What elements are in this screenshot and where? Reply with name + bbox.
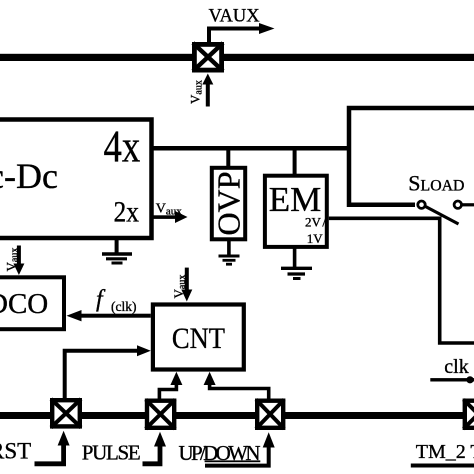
svg-text:(clk): (clk)	[111, 299, 136, 314]
wire: Sload branch (top, left, bottom)	[349, 108, 474, 205]
wire: OVP stem from 4x bus	[226, 150, 230, 167]
ground below OVP	[219, 239, 240, 264]
wire: bottom bus	[0, 412, 474, 419]
wire: TM_2 underline wire	[411, 464, 474, 468]
svg-text:TM_2 T: TM_2 T	[416, 441, 474, 463]
wire: RST branch feedback into CNT left	[65, 351, 138, 398]
wire: 4x output bus to load branch	[152, 146, 352, 151]
block: Dc-Dc converter	[0, 120, 152, 239]
wire: VAUX top bus	[0, 54, 474, 61]
ground below Dc-Dc	[102, 240, 132, 263]
wire: Vaux input arrow into T1 bottom	[206, 82, 210, 107]
block CNT	[153, 305, 244, 370]
svg-text:CNT: CNT	[172, 323, 225, 356]
switch Sload contact 2	[454, 201, 461, 208]
ground below EM	[281, 247, 312, 279]
wire: 2x Vaux output arrow	[154, 215, 177, 219]
wire: PULSE branch into CNT bottom	[159, 384, 176, 400]
svg-text:clk: clk	[444, 356, 468, 378]
wire: PULSE label arrow into B2	[143, 446, 161, 464]
svg-text:1V: 1V	[307, 231, 324, 246]
svg-text:2x: 2x	[114, 196, 140, 229]
block OVP	[212, 168, 245, 240]
wire: Sload right stub	[463, 203, 474, 206]
switch Sload contact 1	[418, 201, 425, 208]
wire: f(clk) from CNT to DCO	[80, 314, 151, 318]
wire: EM output to clk branch corner	[329, 218, 474, 343]
switch box T1 (crossed square on VAUX bus)	[193, 43, 223, 71]
wire: clk line with junction dot	[430, 378, 474, 381]
svg-text:OVP: OVP	[211, 171, 247, 235]
svg-text:VAUX: VAUX	[209, 7, 261, 27]
svg-text:DCO: DCO	[0, 288, 48, 320]
wire: Vaux arrow into CNT	[185, 268, 189, 290]
switch box B3 (UP/DOWN)	[256, 400, 284, 429]
underline of DOWN	[205, 460, 261, 462]
svg-text:RST: RST	[0, 438, 31, 463]
block DCO	[0, 277, 64, 329]
block EM	[265, 176, 327, 247]
wire: UP/DOWN label arrow into B3	[205, 447, 269, 466]
svg-text:2V/: 2V/	[305, 215, 326, 230]
wire: UP/DOWN branch into CNT bottom	[210, 384, 269, 400]
svg-text:Dc-Dc: Dc-Dc	[0, 156, 58, 196]
switch box B1 (RST)	[51, 399, 81, 428]
wire: Vaux arrow into DCO	[17, 246, 21, 265]
svg-text:4x: 4x	[104, 122, 141, 173]
wire: VAUX output arrow from switch T1	[209, 29, 260, 45]
switch box B2 (PULSE)	[146, 400, 176, 429]
switch Sload lever	[426, 207, 459, 225]
svg-text:PULSE: PULSE	[82, 441, 141, 465]
wire: EM stem from 4x bus	[293, 150, 297, 175]
wire: RST label arrow into B1	[35, 445, 64, 464]
svg-text:EM: EM	[269, 180, 322, 219]
switch box B4 (TM_2, cut at right edge)	[464, 400, 474, 429]
